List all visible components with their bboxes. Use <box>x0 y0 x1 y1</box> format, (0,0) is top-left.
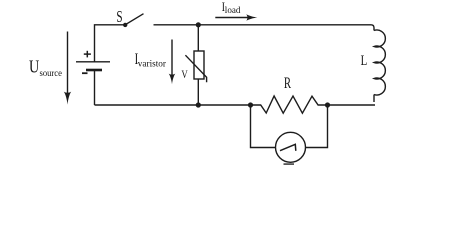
impulse source circle <box>276 132 306 162</box>
resistor R zigzag <box>251 96 328 113</box>
varistor diagonal stroke <box>185 55 206 82</box>
wire bottom horizontal right <box>328 104 376 106</box>
impulse sawtooth waveform <box>280 144 296 151</box>
wire top-left horizontal <box>95 25 126 62</box>
svg-text:R: R <box>284 75 291 92</box>
varistor V body <box>194 51 204 79</box>
stub below impulse circle <box>284 163 295 165</box>
label - battery negative <box>82 72 88 74</box>
node junction dot resistor right <box>325 102 330 107</box>
battery bottom plate (-) <box>86 69 102 72</box>
varistor top lead <box>197 25 199 51</box>
node junction dot varistor top <box>196 22 201 27</box>
wire top-right horizontal <box>154 25 375 31</box>
node junction dot varistor bottom <box>196 102 201 107</box>
svg-text:load: load <box>225 6 241 16</box>
varistor bottom lead <box>197 79 199 105</box>
inductor L coil <box>374 30 385 95</box>
svg-text:source: source <box>40 68 63 79</box>
switch S blade <box>125 14 144 25</box>
switch pivot dot <box>123 23 127 27</box>
svg-text:S: S <box>116 7 122 26</box>
arrow U_source <box>64 32 71 105</box>
node junction dot resistor left <box>248 102 253 107</box>
svg-text:varistor: varistor <box>138 59 167 69</box>
wire right vertical below coil <box>373 95 375 103</box>
parallel branch left drop <box>251 105 276 148</box>
wire bottom horizontal left <box>95 104 251 106</box>
arrow I_varistor <box>169 40 176 85</box>
parallel branch right drop <box>306 105 328 148</box>
svg-text:U: U <box>29 57 39 77</box>
arrow I_load <box>215 14 257 21</box>
wire battery to bottom <box>94 70 96 105</box>
svg-text:V: V <box>181 67 188 81</box>
battery top plate (+) <box>76 61 110 63</box>
svg-text:L: L <box>361 53 368 69</box>
label + battery positive <box>84 51 91 58</box>
